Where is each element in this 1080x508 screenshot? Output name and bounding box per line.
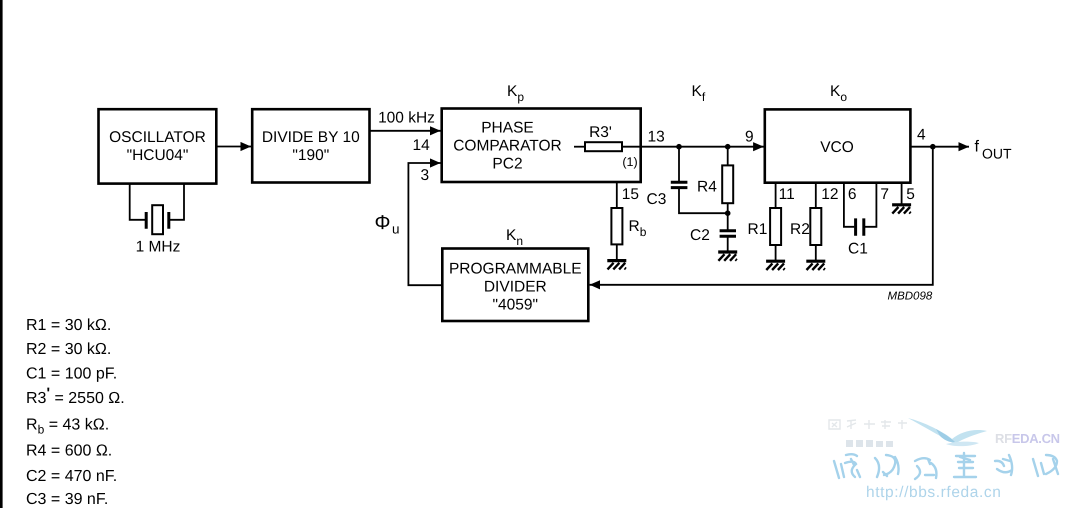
page left border line [0, 0, 3, 508]
wire R3' to box edge [622, 146, 641, 148]
ground below R1 [766, 261, 785, 270]
svg-text:"4059": "4059" [493, 297, 539, 314]
svg-text:1 MHz: 1 MHz [136, 239, 181, 256]
svg-text:100 kHz: 100 kHz [378, 110, 435, 127]
watermark small squares [846, 440, 893, 447]
phase comparator block PC2 [442, 109, 641, 183]
svg-text:C2: C2 [690, 227, 710, 244]
capacitor C2 plates [720, 231, 736, 236]
svg-text:VCO: VCO [820, 139, 854, 156]
svg-text:COMPARATOR: COMPARATOR [453, 137, 562, 154]
ground below pin 5 [892, 205, 911, 214]
ground below C2 [718, 252, 737, 261]
svg-text:http://bbs.rfeda.cn: http://bbs.rfeda.cn [866, 484, 1001, 501]
watermark bird logo [908, 418, 987, 446]
programmable divider block [442, 249, 588, 322]
svg-text:R1: R1 [748, 221, 768, 238]
wire node B down to R4 [727, 147, 729, 166]
wire divider to phase comparator pin 14 [370, 130, 441, 132]
svg-text:3: 3 [421, 167, 430, 184]
svg-text:R2 = 30 kΩ.: R2 = 30 kΩ. [26, 341, 111, 358]
feedback wire node D to programmable divider [590, 147, 933, 285]
resistor Rb body [611, 208, 622, 244]
svg-text:9: 9 [745, 128, 754, 145]
svg-text:14: 14 [413, 137, 431, 154]
divide-by-10 block [252, 109, 369, 182]
resistor R2 body [810, 208, 821, 245]
svg-text:R2: R2 [790, 221, 810, 238]
svg-text:MBD098: MBD098 [888, 291, 933, 303]
svg-text:f: f [975, 139, 980, 156]
wire oscillator to crystal right [169, 184, 184, 220]
svg-text:R1 = 30 kΩ.: R1 = 30 kΩ. [26, 317, 111, 334]
resistor R3' lead [574, 146, 585, 148]
crystal X1 body [152, 205, 163, 234]
ground below Rb [607, 261, 626, 270]
resistor R1 body [770, 208, 781, 245]
watermark group [829, 418, 1060, 501]
wire node A down to C3 [678, 147, 680, 181]
svg-text:"HCU04": "HCU04" [127, 147, 189, 164]
node D dot [930, 144, 936, 150]
node C dot [725, 210, 731, 216]
wire VCO pin 7 to C1 [865, 183, 876, 227]
svg-text:C1: C1 [848, 241, 868, 258]
svg-text:11: 11 [779, 186, 795, 203]
crystal X1 plates [146, 212, 169, 229]
svg-text:6: 6 [848, 186, 857, 203]
wire VCO pin 6 to C1 [844, 183, 854, 227]
svg-text:DIVIDE BY 10: DIVIDE BY 10 [262, 129, 360, 146]
wire node C to C2 [727, 213, 729, 229]
svg-text:(1): (1) [622, 155, 637, 169]
watermark faint upload text [829, 420, 907, 429]
wire R4 to node C [727, 203, 729, 213]
svg-text:7: 7 [880, 186, 889, 203]
wire VCO pin 4 out [910, 146, 969, 148]
node B dot [725, 144, 731, 150]
wire R1 to ground [775, 245, 777, 260]
svg-text:R4 = 600 Ω.: R4 = 600 Ω. [26, 443, 112, 460]
wire VCO pin 5 to ground [901, 183, 903, 204]
watermark cursive forum characters [834, 453, 1058, 479]
svg-text:PHASE: PHASE [481, 119, 534, 136]
svg-text:PROGRAMMABLE: PROGRAMMABLE [449, 261, 582, 278]
wire R2 to ground [815, 245, 817, 260]
wire VCO pin 11 down [775, 183, 777, 208]
resistor R3' body [585, 142, 622, 151]
wire oscillator to crystal left [130, 184, 146, 220]
wire Rb to ground [616, 244, 618, 259]
ground below R2 [806, 261, 825, 270]
svg-text:OSCILLATOR: OSCILLATOR [109, 129, 206, 146]
resistor R4 body [722, 165, 733, 203]
svg-text:R3': R3' [589, 124, 612, 141]
svg-text:13: 13 [648, 128, 665, 145]
svg-text:PC2: PC2 [492, 155, 522, 172]
svg-text:C3 = 39 nF.: C3 = 39 nF. [26, 491, 108, 508]
wire VCO pin 12 down [815, 183, 817, 208]
svg-text:4: 4 [917, 127, 926, 144]
oscillator block U_osc [99, 109, 217, 183]
VCO block [765, 109, 911, 182]
svg-text:5: 5 [906, 186, 915, 203]
wire programmable divider to phase comparator pin 3 [408, 163, 442, 285]
svg-text:C3: C3 [647, 191, 667, 208]
capacitor C3 plates [671, 182, 688, 187]
wire oscillator to divider [217, 146, 252, 148]
node A dot [676, 144, 682, 150]
svg-text:OUT: OUT [982, 146, 1012, 162]
wire phase comparator pin 15 down [616, 182, 618, 208]
wire C3 to bottom node [679, 189, 728, 213]
wire phase comparator pin 13 to VCO pin 9 [641, 146, 764, 148]
svg-text:12: 12 [821, 186, 838, 203]
svg-text:15: 15 [622, 186, 639, 203]
svg-text:RFEDA.CN: RFEDA.CN [995, 431, 1060, 446]
svg-text:DIVIDER: DIVIDER [484, 279, 547, 296]
svg-text:R4: R4 [697, 179, 717, 196]
svg-text:"190": "190" [292, 147, 329, 164]
svg-text:C2 = 470 nF.: C2 = 470 nF. [26, 468, 117, 485]
svg-text:C1 = 100 pF.: C1 = 100 pF. [26, 366, 117, 383]
capacitor C1 plates [856, 218, 864, 235]
wire C2 to ground [727, 237, 729, 250]
